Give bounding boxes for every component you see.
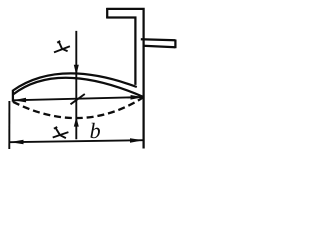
left extension line for b <box>8 101 10 149</box>
up arrowhead for lower k dimension <box>74 117 79 127</box>
label k (lower camber), hand-lettered rotated <box>53 127 69 138</box>
label k (upper camber), hand-lettered rotated <box>54 41 70 52</box>
sheet lower surface arc <box>13 78 144 97</box>
dashed arc (flat blank position) <box>13 97 144 118</box>
dimension line b <box>9 140 143 142</box>
centre slash mark <box>71 94 85 104</box>
bracket profile flange bottom edge <box>143 46 175 47</box>
chord right arrowhead <box>131 95 144 100</box>
chord left arrowhead <box>13 98 26 103</box>
vertical centre line (k dimension leader, top to bottom) <box>75 31 77 139</box>
bracket profile flange right end cap <box>174 40 176 49</box>
b right arrowhead <box>130 138 143 143</box>
bracket profile outer edge: top bar top edge + right wall edge serving as right extension line <box>106 9 143 149</box>
chord dimension line <box>13 97 144 100</box>
down arrowhead for upper k dimension <box>74 65 79 75</box>
sheet upper surface arc <box>13 73 137 90</box>
svg-text:b: b <box>90 118 101 143</box>
bracket profile top bar left end cap <box>106 8 108 18</box>
b left arrowhead <box>10 140 24 145</box>
bracket profile flange top edge (with slight overshoot into wall) <box>141 39 176 40</box>
bracket profile inner edge: top bar bottom edge + wall left edge <box>106 18 135 85</box>
sheet left end cap <box>12 90 14 102</box>
